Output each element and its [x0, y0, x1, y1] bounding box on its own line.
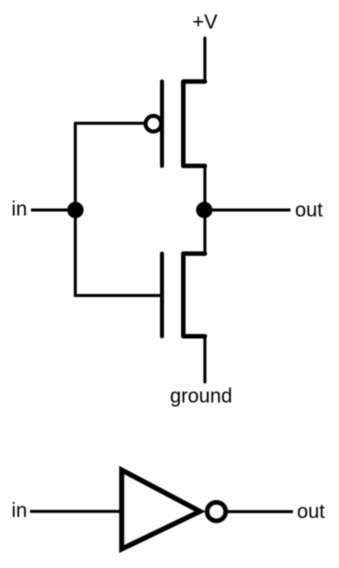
junction: output node [196, 202, 212, 218]
wire input branch: PMOS gate, vertical branch, NMOS gate [75, 123, 160, 295]
transistor Q1 PMOS [146, 82, 205, 166]
wire inverter input lead [30, 510, 121, 513]
wire PMOS drain to output node [203, 166, 206, 210]
U1 triangle body [122, 470, 200, 549]
Q1 channel with source/drain stubs [183, 82, 205, 166]
wire output node to NMOS drain [203, 210, 206, 254]
wire inverter output lead [226, 510, 293, 513]
svg-text:out: out [295, 200, 323, 222]
Q1 gate bar [160, 82, 164, 166]
junction: input node [67, 202, 83, 218]
svg-text:out: out [297, 501, 325, 523]
Q2 gate bar [160, 254, 164, 337]
U1 output inversion bubble [207, 502, 226, 521]
Q1 gate inversion bubble [146, 116, 162, 132]
wire NMOS source to ground [203, 336, 206, 382]
svg-text:in: in [12, 500, 28, 522]
svg-text:+V: +V [192, 11, 218, 33]
wire +V supply to PMOS source [203, 38, 206, 82]
transistor Q2 NMOS [162, 254, 205, 337]
svg-text:in: in [12, 199, 28, 221]
svg-text:ground: ground [170, 386, 232, 408]
inverter gate U1 (logic NOT symbol) [122, 470, 226, 549]
wire input lead from "in" label to input node [31, 209, 75, 212]
Q2 channel with source/drain stubs [183, 254, 205, 337]
wire output lead to "out" label [205, 209, 291, 212]
